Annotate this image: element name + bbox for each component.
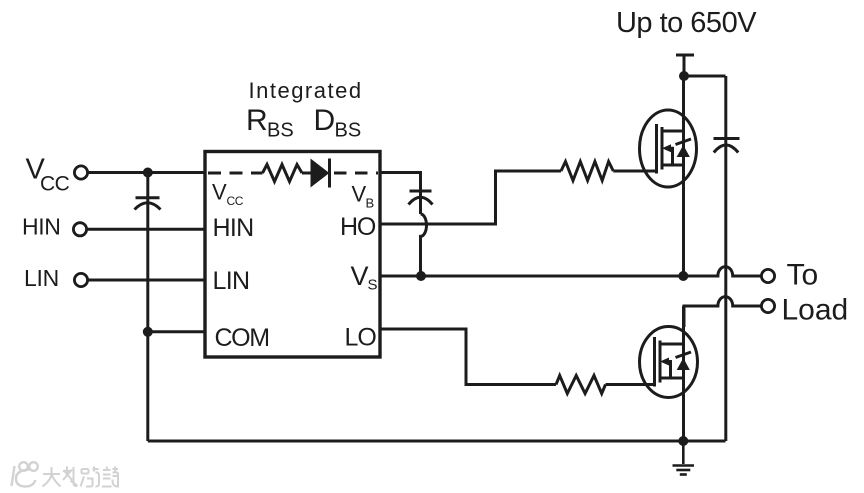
wire Vcc input to IC	[88, 171, 206, 174]
wire LO to low-side gate resistor	[380, 329, 556, 385]
svg-text:COM: COM	[215, 324, 269, 352]
svg-text:S: S	[368, 277, 378, 294]
svg-text:V: V	[352, 182, 367, 207]
capacitor C1 Vcc decoupling top plate	[136, 196, 160, 199]
wire RBS to DBS	[302, 172, 311, 175]
svg-text:Integrated: Integrated	[249, 78, 363, 103]
svg-text:BS: BS	[267, 119, 294, 141]
wire vertical Vcc-COM column down to bottom rail	[146, 173, 149, 442]
svg-text:HO: HO	[340, 213, 376, 241]
wire Load line with hop to Q2 drain	[684, 297, 761, 327]
svg-text:D: D	[314, 104, 336, 137]
capacitor C1 curved bottom plate	[135, 203, 161, 210]
wire Vs to To terminal with hop	[683, 267, 761, 276]
node 650V rail junction	[679, 71, 689, 81]
wire dashed bootstrap net Vcc side	[208, 172, 263, 175]
capacitor CBS curved bottom plate	[409, 197, 433, 204]
transistor Q1 high-side MOSFET	[640, 110, 697, 187]
power rail 650V T-bar	[676, 54, 694, 57]
wire Q2 drain-source column	[682, 306, 685, 441]
wire LIN input to IC	[88, 279, 206, 282]
node ground junction	[678, 436, 688, 446]
wire rail to bus cap column	[684, 75, 726, 78]
wire bottom ground rail	[148, 440, 726, 443]
svg-text:To: To	[787, 259, 819, 292]
transistor Q2 low-side MOSFET	[640, 327, 698, 398]
capacitor Cbus top plate	[714, 137, 740, 140]
wire HO to high-side gate resistor	[380, 171, 561, 224]
wire bootstrap cap to Vs node with hop over HO line	[421, 214, 427, 276]
wire Vs from IC to node	[380, 275, 683, 278]
svg-text:LO: LO	[345, 324, 377, 352]
svg-text:LIN: LIN	[24, 265, 59, 291]
wire VB to bootstrap cap	[380, 173, 421, 215]
IC U1 gate driver box	[205, 152, 380, 358]
svg-text:B: B	[366, 196, 375, 211]
capacitor Cbus curved bottom plate	[714, 145, 738, 153]
node COM tap	[143, 327, 153, 337]
wire dashed bootstrap net VB side	[334, 172, 378, 175]
svg-text:Up to 650V: Up to 650V	[616, 7, 757, 39]
svg-text:HIN: HIN	[213, 214, 254, 242]
svg-text:CC: CC	[227, 194, 244, 208]
diode DBS	[311, 160, 329, 187]
capacitor CBS top plate	[410, 190, 432, 193]
terminal HIN input	[73, 223, 86, 236]
svg-text:R: R	[246, 104, 268, 137]
svg-text:Load: Load	[782, 294, 849, 327]
resistor R2 low-side gate	[556, 376, 606, 394]
resistor R1 high-side gate	[561, 162, 613, 181]
node bootstrap-Vs junction	[416, 271, 426, 281]
terminal Vcc input	[74, 166, 87, 179]
svg-text:V: V	[351, 261, 369, 291]
resistor RBS	[263, 165, 303, 182]
wire 650V rail down to node	[683, 55, 686, 76]
wire R1 to Q1 gate	[613, 170, 656, 173]
wire R2 to Q2 gate	[606, 383, 655, 386]
watermark logo and text (light gray)	[12, 462, 119, 486]
wire Q1 drain-source column	[682, 76, 685, 276]
wire COM stub	[148, 330, 206, 333]
wire HIN input to IC	[87, 228, 206, 231]
terminal LIN input	[74, 273, 87, 286]
node Vcc decoupling tap	[143, 168, 153, 178]
terminal To	[761, 269, 774, 282]
svg-text:LIN: LIN	[213, 267, 250, 295]
wire bus cap column	[724, 76, 727, 441]
ground symbol	[673, 441, 695, 475]
svg-text:HIN: HIN	[22, 214, 60, 240]
svg-text:V: V	[212, 179, 227, 204]
terminal Load	[761, 299, 774, 312]
node Vs switch node	[678, 271, 688, 281]
svg-text:CC: CC	[40, 173, 70, 196]
svg-text:BS: BS	[335, 119, 362, 141]
